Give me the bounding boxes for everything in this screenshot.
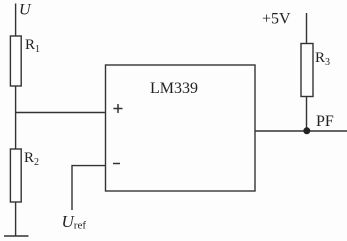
wire output PF	[255, 130, 347, 132]
plus input symbol	[113, 104, 122, 113]
ground	[4, 235, 29, 237]
wire junction to + input	[16, 112, 106, 114]
wire R1 to junction	[15, 86, 17, 149]
resistor R2	[10, 149, 21, 202]
minus input symbol	[113, 163, 120, 165]
svg-text:PF: PF	[316, 113, 334, 130]
resistor R3	[301, 44, 313, 97]
wire minus input from Uref	[72, 166, 106, 210]
svg-text:U: U	[19, 2, 32, 19]
node PF junction dot	[303, 127, 310, 134]
op-amp U1 LM339 box	[106, 65, 256, 191]
resistor R1	[10, 36, 21, 86]
svg-text:+5V: +5V	[262, 11, 291, 28]
svg-text:LM339: LM339	[150, 80, 198, 97]
wire U input to R1	[15, 4, 17, 37]
wire R2 to ground	[15, 202, 17, 236]
wire R3 to output node	[306, 97, 308, 132]
wire +5V to R3	[306, 13, 308, 44]
